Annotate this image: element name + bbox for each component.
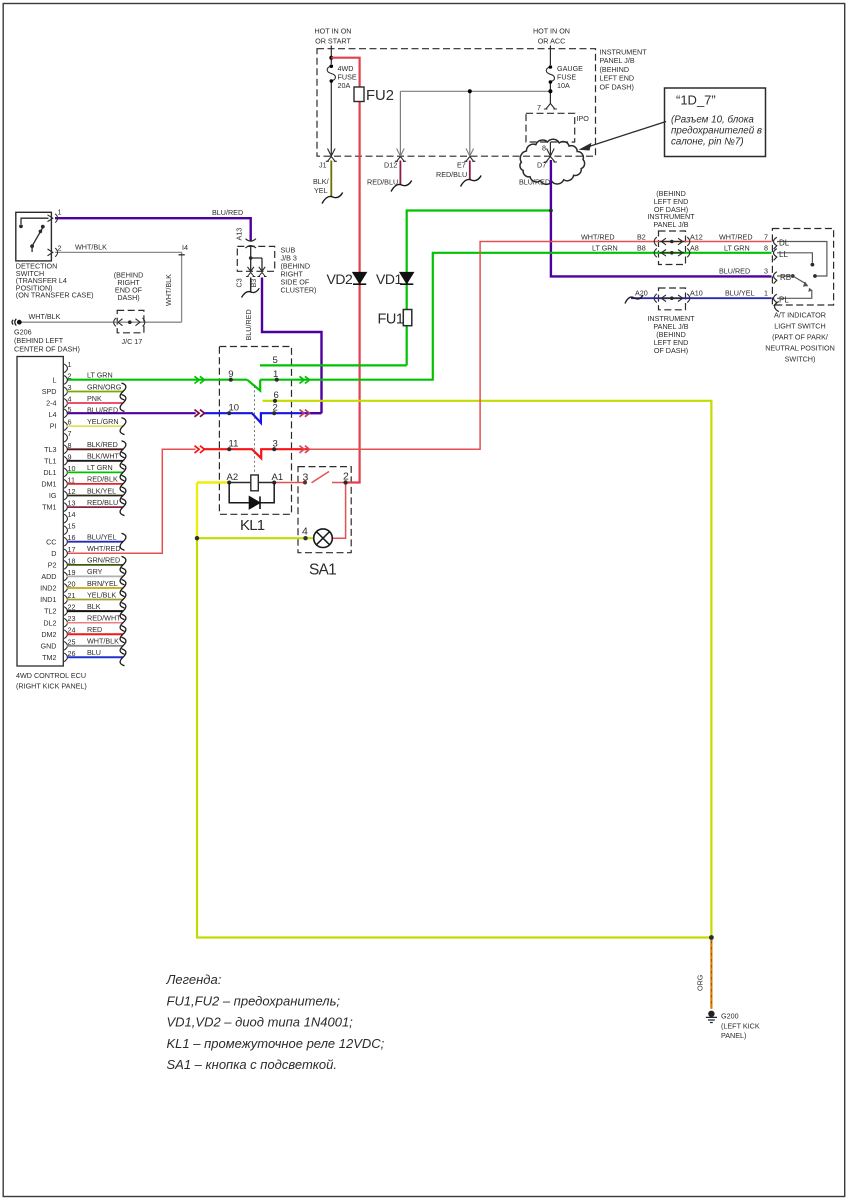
svg-text:5: 5 <box>273 355 278 366</box>
svg-text:RED/BLK: RED/BLK <box>87 475 118 484</box>
svg-text:WHT/BLK: WHT/BLK <box>29 312 61 321</box>
svg-text:OR START: OR START <box>315 37 351 46</box>
svg-text:B2: B2 <box>637 233 646 242</box>
svg-text:HOT IN ON: HOT IN ON <box>533 27 570 36</box>
svg-text:A12: A12 <box>690 233 703 242</box>
svg-text:WHT/BLK: WHT/BLK <box>164 274 173 306</box>
svg-text:8: 8 <box>542 144 546 153</box>
svg-text:PNK: PNK <box>87 394 102 403</box>
svg-text:6: 6 <box>274 390 279 401</box>
svg-text:B3: B3 <box>249 279 258 288</box>
svg-text:FU1,FU2 – предохранитель;: FU1,FU2 – предохранитель; <box>167 993 341 1008</box>
svg-text:LEFT END: LEFT END <box>600 74 635 83</box>
svg-text:DL2: DL2 <box>43 618 56 627</box>
svg-text:D12: D12 <box>384 161 397 170</box>
svg-text:DM1: DM1 <box>41 480 56 489</box>
svg-text:RED/BLU: RED/BLU <box>436 170 467 179</box>
svg-text:LIGHT SWITCH: LIGHT SWITCH <box>774 322 825 331</box>
svg-text:WHT/BLK: WHT/BLK <box>75 242 107 251</box>
svg-text:VD1: VD1 <box>376 271 402 287</box>
svg-text:PI: PI <box>50 422 57 431</box>
svg-text:A8: A8 <box>690 244 699 253</box>
svg-text:SWITCH): SWITCH) <box>785 355 816 364</box>
svg-text:TM2: TM2 <box>42 653 56 662</box>
svg-text:10A: 10A <box>557 81 570 90</box>
svg-text:“1D_7”: “1D_7” <box>676 92 716 107</box>
svg-text:GRN/ORG: GRN/ORG <box>87 382 122 391</box>
svg-text:7: 7 <box>537 103 541 112</box>
svg-text:23: 23 <box>68 614 76 623</box>
svg-text:4WD CONTROL ECU: 4WD CONTROL ECU <box>16 671 86 680</box>
svg-text:11: 11 <box>229 439 239 450</box>
svg-text:GRN/RED: GRN/RED <box>87 556 120 565</box>
svg-text:DASH): DASH) <box>117 293 139 302</box>
svg-text:BLU/RED: BLU/RED <box>244 309 253 340</box>
svg-text:(ON TRANSFER CASE): (ON TRANSFER CASE) <box>16 291 94 300</box>
svg-text:SPD: SPD <box>42 387 57 396</box>
svg-text:DM2: DM2 <box>41 630 56 639</box>
svg-text:LT GRN: LT GRN <box>592 244 618 253</box>
svg-text:17: 17 <box>68 545 76 554</box>
svg-text:1: 1 <box>58 208 62 217</box>
svg-text:LL: LL <box>779 250 788 259</box>
svg-text:3: 3 <box>303 471 309 483</box>
svg-text:BLU: BLU <box>87 648 101 657</box>
svg-text:TL2: TL2 <box>44 607 56 616</box>
svg-text:BLK/YEL: BLK/YEL <box>87 486 116 495</box>
svg-text:P2: P2 <box>48 561 57 570</box>
svg-text:L: L <box>53 376 57 385</box>
svg-text:салоне, pin №7): салоне, pin №7) <box>671 137 744 148</box>
svg-text:OF DASH): OF DASH) <box>600 82 634 91</box>
svg-text:1: 1 <box>273 369 278 380</box>
svg-text:LT GRN: LT GRN <box>724 244 750 253</box>
svg-text:RB: RB <box>780 273 791 282</box>
svg-text:GRY: GRY <box>87 567 103 576</box>
svg-text:A13: A13 <box>235 228 244 241</box>
svg-text:IG: IG <box>49 491 57 500</box>
svg-text:FU1: FU1 <box>378 312 404 328</box>
svg-text:2-4: 2-4 <box>46 399 56 408</box>
svg-text:J/C 17: J/C 17 <box>122 337 143 346</box>
svg-text:RED/BLU: RED/BLU <box>87 498 118 507</box>
svg-text:RED: RED <box>87 625 102 634</box>
svg-text:10: 10 <box>229 403 240 414</box>
svg-text:A/T INDICATOR: A/T INDICATOR <box>774 311 826 320</box>
svg-text:Легенда:: Легенда: <box>166 972 222 987</box>
svg-text:CC: CC <box>46 537 56 546</box>
svg-text:B8: B8 <box>637 244 646 253</box>
svg-text:I4: I4 <box>182 243 188 252</box>
svg-text:KL1: KL1 <box>240 517 265 534</box>
svg-text:BLK/WHT: BLK/WHT <box>87 452 120 461</box>
svg-text:LT GRN: LT GRN <box>87 463 113 472</box>
svg-text:5: 5 <box>68 405 72 414</box>
svg-text:WHT/RED: WHT/RED <box>719 233 753 242</box>
svg-text:BLK: BLK <box>87 602 101 611</box>
svg-text:IND1: IND1 <box>40 595 56 604</box>
svg-text:J1: J1 <box>319 161 327 170</box>
svg-text:BLU/RED: BLU/RED <box>519 178 550 187</box>
svg-text:BLU/RED: BLU/RED <box>212 208 243 217</box>
svg-text:BLU/RED: BLU/RED <box>719 267 750 276</box>
svg-text:YEL/GRN: YEL/GRN <box>87 417 119 426</box>
svg-text:IPO: IPO <box>577 114 590 123</box>
svg-text:CENTER OF DASH): CENTER OF DASH) <box>14 345 80 354</box>
svg-text:YEL/BLK: YEL/BLK <box>87 590 116 599</box>
svg-text:1: 1 <box>764 289 768 298</box>
svg-text:2: 2 <box>343 471 349 483</box>
svg-text:VD2: VD2 <box>327 271 353 287</box>
svg-text:GND: GND <box>41 641 57 650</box>
svg-text:ORG: ORG <box>696 974 705 991</box>
svg-text:A20: A20 <box>635 289 648 298</box>
svg-text:RED/WHT: RED/WHT <box>87 614 121 623</box>
svg-text:A2: A2 <box>227 472 239 483</box>
svg-text:VD1,VD2 – диод типа 1N4001;: VD1,VD2 – диод типа 1N4001; <box>167 1015 354 1030</box>
svg-text:BLU/YEL: BLU/YEL <box>87 533 117 542</box>
svg-text:WHT/RED: WHT/RED <box>87 544 121 553</box>
svg-text:D7: D7 <box>537 161 546 170</box>
svg-text:3: 3 <box>764 267 768 276</box>
svg-text:BRN/YEL: BRN/YEL <box>87 579 118 588</box>
svg-text:WHT/BLK: WHT/BLK <box>87 637 119 646</box>
svg-text:BLU/YEL: BLU/YEL <box>725 289 755 298</box>
svg-text:LT GRN: LT GRN <box>87 371 113 380</box>
svg-text:C3: C3 <box>235 278 244 287</box>
svg-text:BLK/RED: BLK/RED <box>87 440 118 449</box>
svg-text:2: 2 <box>58 243 62 252</box>
svg-text:D: D <box>51 549 56 558</box>
svg-text:WHT/RED: WHT/RED <box>581 233 615 242</box>
svg-text:SA1: SA1 <box>309 562 336 579</box>
svg-text:7: 7 <box>68 429 72 438</box>
svg-text:YEL: YEL <box>314 186 328 195</box>
svg-text:PANEL): PANEL) <box>721 1031 746 1040</box>
svg-text:ADD: ADD <box>41 572 56 581</box>
svg-text:RED/BLU: RED/BLU <box>367 178 398 187</box>
svg-text:DL1: DL1 <box>43 468 56 477</box>
svg-text:OR ACC: OR ACC <box>538 37 566 46</box>
svg-text:(Разъем 10, блока: (Разъем 10, блока <box>671 115 754 126</box>
svg-text:NEUTRAL POSITION: NEUTRAL POSITION <box>765 344 835 353</box>
svg-text:(BEHIND: (BEHIND <box>600 65 630 74</box>
svg-text:TM1: TM1 <box>42 503 56 512</box>
svg-text:BLU/RED: BLU/RED <box>87 405 118 414</box>
svg-text:2: 2 <box>68 371 72 380</box>
svg-text:BLK/: BLK/ <box>313 177 329 186</box>
svg-text:IND2: IND2 <box>40 584 56 593</box>
svg-text:KL1 – промежуточное реле 12VDC: KL1 – промежуточное реле 12VDC; <box>167 1036 385 1051</box>
svg-text:INSTRUMENT: INSTRUMENT <box>600 48 648 57</box>
svg-text:HOT IN ON: HOT IN ON <box>314 27 351 36</box>
svg-text:7: 7 <box>764 233 768 242</box>
svg-text:TL1: TL1 <box>44 456 56 465</box>
svg-text:14: 14 <box>68 510 76 519</box>
svg-text:PL: PL <box>779 296 789 305</box>
svg-text:E7: E7 <box>457 161 466 170</box>
svg-text:8: 8 <box>764 244 768 253</box>
svg-text:3: 3 <box>273 439 278 450</box>
svg-text:20A: 20A <box>338 81 351 90</box>
svg-text:предохранителей в: предохранителей в <box>671 126 762 137</box>
svg-text:OF DASH): OF DASH) <box>654 346 688 355</box>
svg-text:G200: G200 <box>721 1012 739 1021</box>
svg-text:L4: L4 <box>49 410 57 419</box>
svg-text:CLUSTER): CLUSTER) <box>281 286 317 295</box>
svg-text:A10: A10 <box>690 289 703 298</box>
svg-text:1: 1 <box>68 360 72 369</box>
svg-text:SA1 – кнопка с подсветкой.: SA1 – кнопка с подсветкой. <box>167 1057 338 1072</box>
svg-text:(PART OF PARK/: (PART OF PARK/ <box>772 333 828 342</box>
svg-text:TL3: TL3 <box>44 445 56 454</box>
svg-text:DL: DL <box>779 239 790 248</box>
svg-text:PANEL J/B: PANEL J/B <box>600 56 635 65</box>
svg-text:2: 2 <box>273 403 278 414</box>
svg-text:PANEL J/B: PANEL J/B <box>653 220 688 229</box>
svg-text:9: 9 <box>228 369 233 380</box>
svg-text:FU2: FU2 <box>366 88 394 104</box>
svg-text:4: 4 <box>302 526 308 538</box>
svg-text:15: 15 <box>68 522 76 531</box>
svg-text:A1: A1 <box>272 472 284 483</box>
svg-text:(LEFT KICK: (LEFT KICK <box>721 1021 760 1030</box>
svg-text:(RIGHT KICK PANEL): (RIGHT KICK PANEL) <box>16 682 87 691</box>
